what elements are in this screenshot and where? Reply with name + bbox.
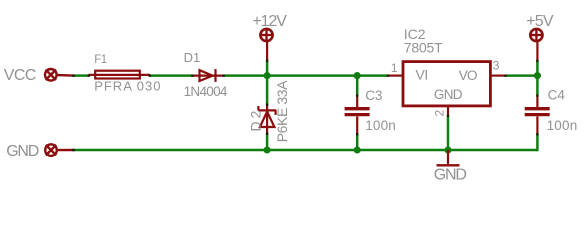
supply +5V symbol (529, 28, 543, 61)
wire fuse to D1 (150, 74, 193, 77)
supply +12V symbol (259, 28, 273, 61)
capacitor C3 (345, 95, 370, 134)
wire IC2 pin3 to +5V junction (506, 74, 538, 77)
svg-text:PFRA 030: PFRA 030 (94, 79, 161, 94)
zener diode D2 (258, 105, 276, 134)
wire IC2 pin2 down to GND rail (447, 116, 450, 151)
wire VCC net: pad to fuse (73, 74, 89, 77)
ground symbol (437, 150, 460, 165)
svg-text:GND: GND (6, 143, 39, 160)
svg-text:VCC: VCC (4, 67, 36, 84)
svg-text:1N4004: 1N4004 (184, 84, 228, 99)
svg-text:7805T: 7805T (404, 40, 443, 56)
pad VCC (45, 69, 74, 81)
node C3 bottom junction (354, 146, 361, 153)
wire C3 top (356, 76, 359, 96)
svg-text:C3: C3 (365, 88, 382, 103)
wire +5V supply to junction (536, 61, 539, 96)
capacitor C4 (525, 95, 550, 134)
pin-net overlap dark dots (72, 60, 538, 152)
node C3 top junction (354, 72, 361, 79)
svg-text:1: 1 (391, 61, 398, 75)
svg-text:GND: GND (434, 87, 463, 102)
diode D1 (192, 69, 224, 82)
svg-text:GND: GND (434, 167, 467, 184)
fuse F1 body (89, 71, 151, 79)
svg-text:VO: VO (459, 68, 477, 83)
svg-text:D2: D2 (247, 108, 263, 132)
wire D2 to GND rail (266, 134, 269, 150)
wire C3 bottom (356, 134, 359, 150)
node GND symbol junction (444, 146, 451, 153)
wire +12V supply to junction (266, 61, 269, 105)
svg-text:VI: VI (416, 67, 428, 83)
svg-text:3: 3 (493, 59, 500, 73)
pad GND (45, 144, 73, 156)
svg-text:100n: 100n (365, 118, 396, 133)
node D2 bottom junction (264, 146, 271, 153)
svg-text:2: 2 (433, 110, 447, 117)
wire GND rail (73, 149, 537, 152)
regulator IC2 7805T body (389, 62, 506, 116)
svg-text:P6KE 33A: P6KE 33A (274, 80, 290, 142)
svg-text:100n: 100n (547, 118, 578, 133)
svg-text:+12V: +12V (252, 13, 287, 30)
svg-text:+5V: +5V (526, 13, 554, 30)
node +5V/C4 junction (534, 72, 541, 79)
node +12V/D2 junction (264, 72, 271, 79)
wire D1 to IC2 pin1 (through +12V and C3 junctions) (224, 74, 389, 77)
svg-text:F1: F1 (94, 54, 107, 66)
wire GND rail corner up to C4 (536, 134, 539, 151)
svg-text:C4: C4 (548, 87, 566, 102)
svg-text:D1: D1 (184, 50, 201, 65)
